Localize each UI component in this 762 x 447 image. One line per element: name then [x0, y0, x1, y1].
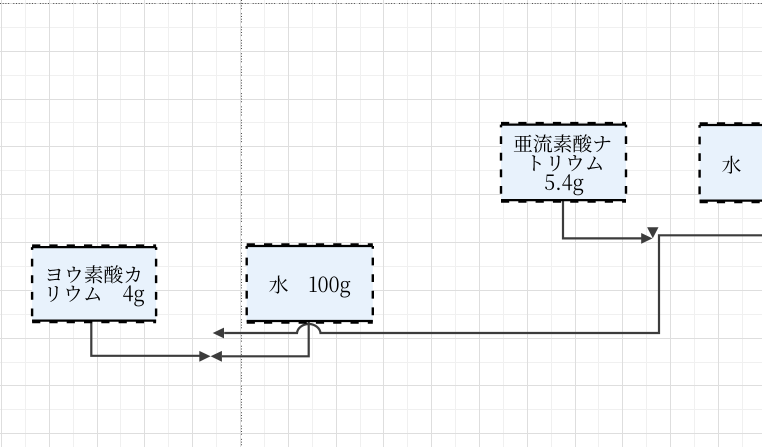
text box1 line1: [48, 265, 140, 283]
wire from box1 down-right to meeting point: [91, 321, 200, 356]
wire from box3 down-right to junction: [563, 200, 642, 238]
arrowhead left at meeting point: [211, 351, 222, 362]
text box3 line2: [532, 155, 602, 171]
box1 potassium iodate heading: [32, 247, 156, 321]
text box2: [269, 276, 350, 298]
box2 water 100g: [247, 246, 373, 321]
arrowhead down at junction: [647, 227, 658, 238]
page boundary vertical dashed line: [241, 0, 243, 447]
text box4: [722, 156, 741, 174]
long wire from right edge down-left with hop over box2 stub to left arrow: [224, 235, 762, 333]
text box1 line2: [48, 285, 144, 306]
page boundary horizontal dashed line: [0, 3, 762, 5]
wire from box2 down-left to meeting point: [222, 321, 309, 356]
arrowhead right at junction: [641, 233, 652, 244]
arrowhead right at meeting point: [199, 351, 210, 362]
box4 water right: [700, 125, 762, 201]
arrowhead left end of long wire: [213, 328, 224, 339]
text box3 line1: [514, 134, 611, 152]
box3 sodium sulfite: [501, 125, 626, 201]
text box3 line3: [545, 174, 583, 195]
